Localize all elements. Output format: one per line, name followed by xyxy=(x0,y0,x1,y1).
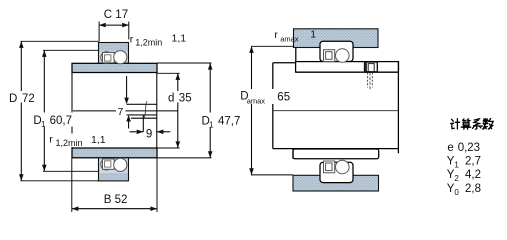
outer ring bottom mounted xyxy=(320,162,353,182)
svg-text:amax: amax xyxy=(247,97,266,106)
cage and balls top mounted xyxy=(336,49,350,63)
svg-text:0: 0 xyxy=(454,188,459,197)
svg-text:1: 1 xyxy=(454,161,459,170)
bore left face line xyxy=(71,73,73,149)
shaft block outline xyxy=(295,48,297,62)
svg-text:d: d xyxy=(168,92,174,104)
heading 计算系数 drawn as paths xyxy=(451,119,494,130)
slot step line xyxy=(131,117,157,119)
svg-text:2,8: 2,8 xyxy=(465,183,481,195)
centerline left view xyxy=(73,110,178,112)
dimension D1 47,7 xyxy=(157,62,212,64)
set screw hidden lines xyxy=(367,73,369,88)
系 xyxy=(473,119,482,126)
dimension 9 xyxy=(142,115,144,132)
cage pocket top xyxy=(103,53,115,63)
ball row top left ball xyxy=(101,52,112,63)
svg-text:1,2min: 1,2min xyxy=(135,37,162,47)
sleeve top mounted xyxy=(296,62,399,73)
dimension 7 xyxy=(126,76,128,99)
outer ring bottom section xyxy=(99,158,129,181)
svg-text:72: 72 xyxy=(22,93,35,105)
outer ring top section xyxy=(99,43,129,64)
svg-text:1: 1 xyxy=(209,120,214,129)
svg-text:47,7: 47,7 xyxy=(218,115,240,127)
svg-text:65: 65 xyxy=(277,91,290,103)
dimension B 52 xyxy=(71,158,73,212)
svg-text:2,7: 2,7 xyxy=(465,156,481,168)
washer bottom mounted xyxy=(293,149,379,159)
dimension d 35 xyxy=(157,72,179,74)
ball row bottom left ball xyxy=(101,159,112,170)
locking collar with set screw xyxy=(365,62,378,72)
svg-text:r: r xyxy=(274,29,278,41)
slot bottom line xyxy=(127,114,157,116)
inner ring extended sleeve top xyxy=(72,63,157,72)
outer ring top mounted xyxy=(320,41,353,61)
housing shoulder bottom xyxy=(293,175,379,191)
cage pocket bottom xyxy=(103,159,115,169)
svg-text:2: 2 xyxy=(454,174,459,183)
svg-text:1: 1 xyxy=(41,120,46,129)
svg-text:7: 7 xyxy=(118,106,124,118)
dimension D1 60,7 xyxy=(43,49,99,51)
svg-text:r: r xyxy=(130,33,134,45)
svg-text:35: 35 xyxy=(179,92,192,104)
bore right face line xyxy=(156,73,158,149)
svg-text:D: D xyxy=(9,93,17,105)
ball row bottom right ball xyxy=(114,158,127,171)
svg-text:60,7: 60,7 xyxy=(50,115,72,127)
inner ring extended sleeve bottom xyxy=(72,148,157,158)
svg-text:1,1: 1,1 xyxy=(172,33,187,45)
dimension Da max 65 xyxy=(251,45,294,47)
label r 1,2min 1,1 bottom xyxy=(48,134,106,148)
svg-text:B 52: B 52 xyxy=(104,194,128,206)
svg-text:0,23: 0,23 xyxy=(458,142,480,154)
svg-text:amax: amax xyxy=(280,35,299,44)
ball row top right ball xyxy=(114,51,127,64)
slot top line xyxy=(127,103,157,105)
svg-text:1: 1 xyxy=(310,29,316,41)
cage and balls bottom mounted xyxy=(336,160,350,174)
计 xyxy=(451,119,455,128)
svg-text:1,1: 1,1 xyxy=(91,134,106,146)
break arc xyxy=(144,101,147,117)
svg-text:C 17: C 17 xyxy=(104,9,128,21)
dimension D 72 xyxy=(21,40,99,42)
svg-text:1,2min: 1,2min xyxy=(56,138,83,148)
svg-text:r: r xyxy=(49,134,53,146)
数 xyxy=(483,119,488,123)
算 xyxy=(463,119,471,121)
svg-text:4,2: 4,2 xyxy=(465,169,481,181)
dimension C 17 xyxy=(98,22,100,42)
housing shoulder top xyxy=(294,29,379,48)
svg-text:e: e xyxy=(447,142,453,154)
centerline right view xyxy=(273,110,399,112)
svg-text:9: 9 xyxy=(146,128,152,140)
